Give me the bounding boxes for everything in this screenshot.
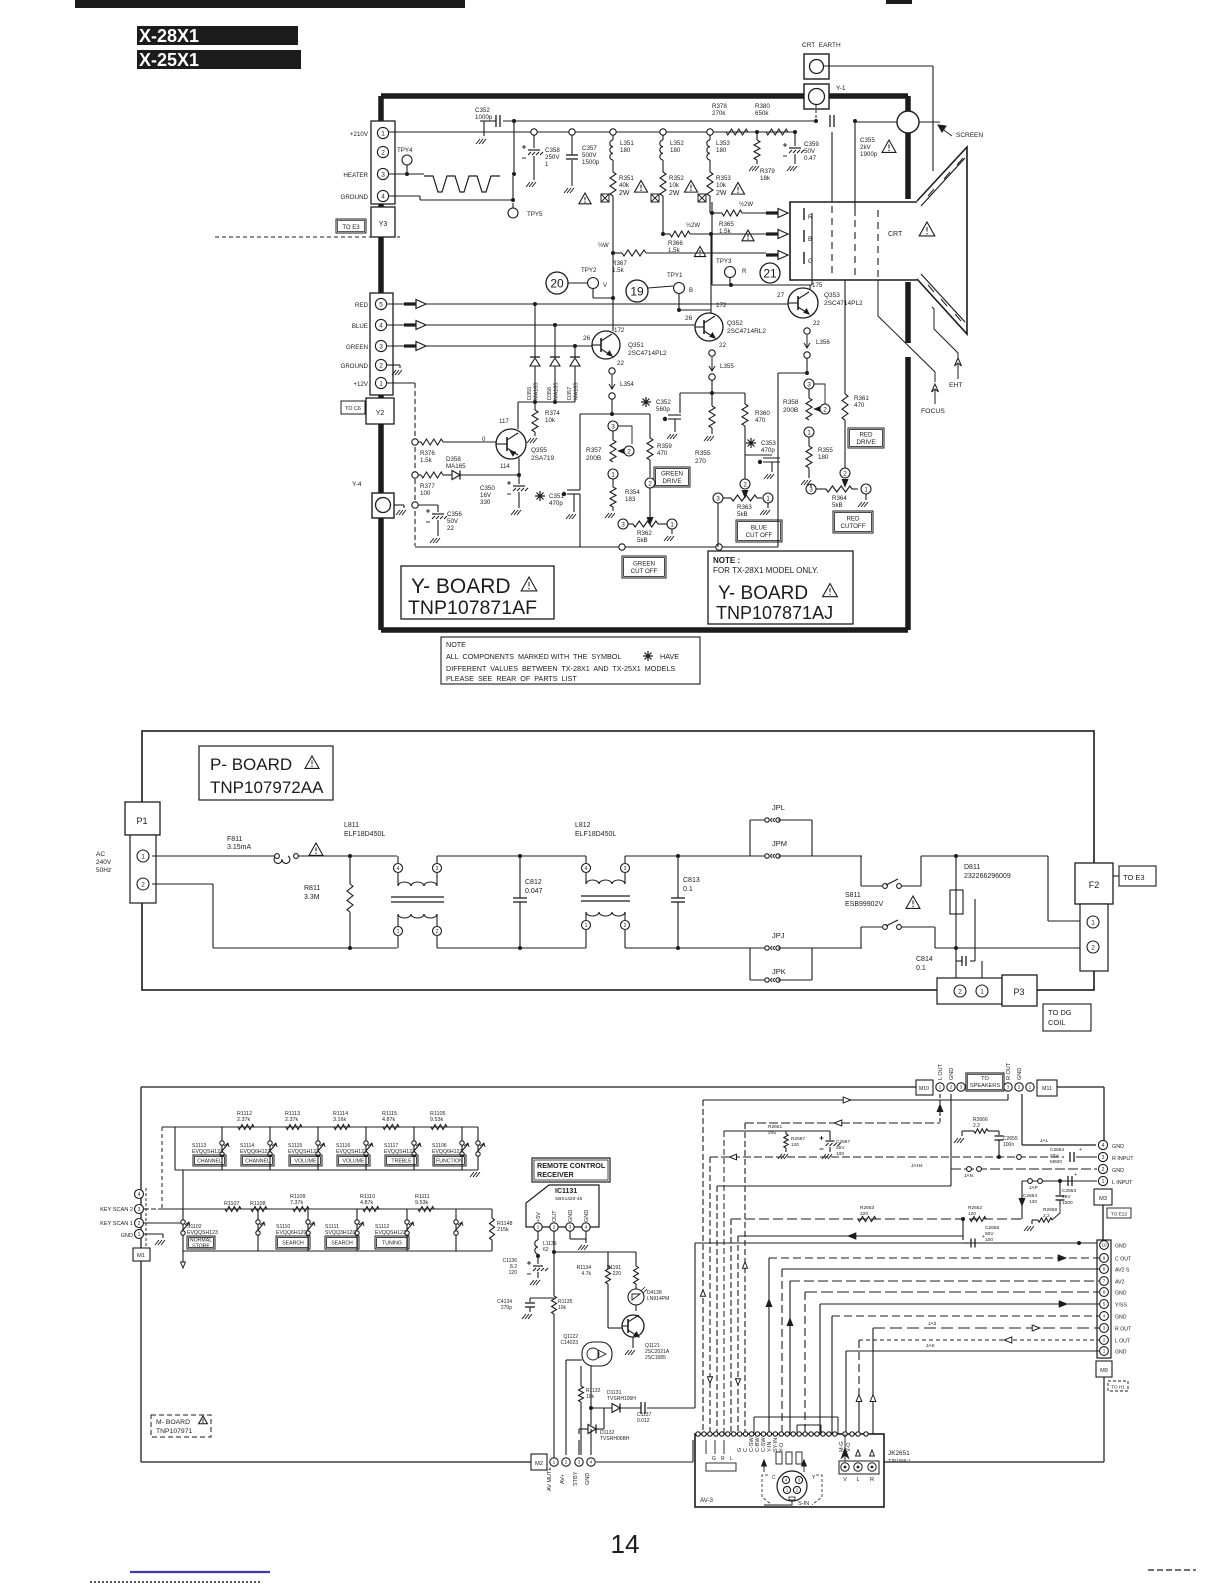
- svg-text:V-O: V-O: [846, 1442, 852, 1452]
- svg-text:R2667: R2667: [791, 1136, 805, 1142]
- svg-text:10: 10: [1101, 1243, 1107, 1248]
- svg-text:5kB: 5kB: [737, 511, 748, 518]
- wire bus pin1: [846, 1350, 1099, 1352]
- connector Y3 label: [371, 207, 395, 237]
- svg-text:TPY2: TPY2: [581, 267, 597, 274]
- svg-text:R358: R358: [783, 399, 799, 406]
- svg-text:L INPUT: L INPUT: [1112, 1180, 1133, 1186]
- svg-text:2SC4714PL2: 2SC4714PL2: [824, 300, 863, 307]
- svg-text:3: 3: [578, 1460, 581, 1466]
- svg-text:C352: C352: [475, 107, 490, 114]
- svg-text:120: 120: [791, 1142, 799, 1148]
- connector M3 pins: [1098, 1140, 1107, 1149]
- svg-text:MA165: MA165: [554, 383, 560, 400]
- connector P3: [937, 978, 1002, 1004]
- svg-text:CHANNEL: CHANNEL: [197, 1158, 222, 1164]
- svg-text:JAN: JAN: [964, 1173, 974, 1179]
- svg-text:100: 100: [836, 1151, 844, 1157]
- svg-text:4.87k: 4.87k: [382, 1117, 395, 1123]
- svg-text:S811: S811: [845, 892, 861, 899]
- REMOTE CONTROL RECEIVER box: [532, 1158, 610, 1182]
- svg-text:EVQQ6H12G: EVQQ6H12G: [276, 1230, 307, 1236]
- svg-text:C358: C358: [545, 147, 560, 154]
- potentiometer R362: [645, 478, 655, 488]
- svg-text:2: 2: [648, 480, 652, 487]
- svg-text:GROUND: GROUND: [341, 194, 369, 201]
- svg-text:R1107: R1107: [224, 1201, 239, 1207]
- svg-text:TO H1: TO H1: [1111, 1385, 1125, 1390]
- svg-text:BLUE: BLUE: [352, 323, 368, 330]
- test point TPY2: [588, 278, 599, 289]
- svg-text:TPY4: TPY4: [397, 147, 413, 154]
- svg-text:L353: L353: [716, 140, 730, 147]
- wire CRT earth: [824, 65, 933, 67]
- svg-text:0.012: 0.012: [637, 1418, 650, 1424]
- svg-text:M9: M9: [1100, 1368, 1108, 1374]
- svg-text:25V: 25V: [1050, 1153, 1059, 1159]
- svg-text:D355: D355: [527, 387, 533, 400]
- wire speaker L down: [939, 1094, 941, 1123]
- svg-text:TNP107972AA: TNP107972AA: [210, 778, 324, 797]
- svg-text:R811: R811: [304, 885, 320, 892]
- svg-text:BLUE: BLUE: [751, 525, 767, 532]
- svg-text:L812: L812: [575, 822, 591, 829]
- wire Q353 collector: [811, 213, 813, 285]
- svg-text:M2: M2: [535, 1461, 543, 1467]
- svg-text:TNP107871AJ: TNP107871AJ: [716, 603, 833, 623]
- wire bus pin7: [790, 1280, 1099, 1282]
- svg-text:1: 1: [611, 471, 615, 478]
- capacitor C2656: [962, 1219, 964, 1236]
- svg-text:TPY1: TPY1: [667, 272, 683, 279]
- svg-text:RED: RED: [355, 302, 369, 309]
- wire keyscan2: [144, 1208, 162, 1210]
- svg-text:1: 1: [807, 429, 811, 436]
- svg-text:330: 330: [480, 499, 491, 506]
- svg-text:ELF18D450L: ELF18D450L: [344, 831, 385, 838]
- svg-text:R374: R374: [545, 410, 560, 417]
- svg-text:205: 205: [768, 1130, 776, 1136]
- svg-text:Y2: Y2: [376, 410, 385, 417]
- svg-text:50Hz: 50Hz: [96, 867, 111, 874]
- capacitor C353: [746, 438, 756, 448]
- resistor R360: [744, 393, 746, 404]
- svg-text:Q352: Q352: [727, 320, 743, 327]
- svg-text:+5V: +5V: [536, 1212, 542, 1222]
- label SCREEN: [941, 128, 952, 136]
- wire Q1122 pins: [565, 1360, 567, 1455]
- svg-text:2SC4714RL2: 2SC4714RL2: [727, 328, 766, 335]
- svg-text:3: 3: [624, 866, 627, 872]
- wire screen rail: [503, 120, 816, 122]
- wire GREEN row: [387, 345, 592, 347]
- svg-text:2: 2: [379, 362, 383, 369]
- test point circle 21: [760, 263, 780, 283]
- wire blue emitter node: [680, 392, 745, 394]
- wire M11 to M3 pin4: [1057, 1086, 1104, 1088]
- svg-text:GND: GND: [1115, 1350, 1127, 1356]
- svg-text:2: 2: [565, 1460, 568, 1466]
- svg-text:FOR TX-28X1 MODEL ONLY.: FOR TX-28X1 MODEL ONLY.: [713, 566, 819, 575]
- svg-text:1: 1: [1103, 1349, 1106, 1354]
- svg-text:R: R: [721, 1456, 725, 1462]
- svg-text:GREEN: GREEN: [661, 471, 683, 478]
- svg-text:R2653: R2653: [860, 1205, 874, 1211]
- svg-text:M11: M11: [1042, 1086, 1052, 1092]
- wire +12V feed: [387, 382, 415, 384]
- svg-text:+: +: [1079, 1147, 1082, 1153]
- svg-text:20: 20: [550, 277, 564, 291]
- svg-text:120: 120: [968, 1211, 976, 1217]
- svg-text:183: 183: [625, 496, 636, 503]
- svg-text:4: 4: [585, 866, 588, 872]
- svg-text:JPL: JPL: [772, 803, 785, 812]
- wire switch row1 top rail: [162, 1126, 478, 1128]
- bottom blue mark: [130, 1571, 270, 1573]
- svg-text:MA165: MA165: [446, 463, 466, 470]
- svg-text:2.2: 2.2: [973, 1123, 980, 1129]
- svg-text:TO C6: TO C6: [345, 406, 361, 412]
- svg-text:M3: M3: [1099, 1196, 1107, 1202]
- potentiometer R357: [608, 421, 618, 431]
- svg-text:GND: GND: [1112, 1168, 1124, 1174]
- wire row2 bottom rail: [183, 1250, 492, 1252]
- svg-text:5: 5: [1103, 1302, 1106, 1307]
- switch row2 456: [455, 1209, 457, 1251]
- svg-text:180: 180: [716, 147, 727, 154]
- transistor Q1121: [635, 1305, 637, 1311]
- svg-text:2SA719: 2SA719: [531, 455, 555, 462]
- transistor Q351: [592, 331, 620, 359]
- CRT pin G: [803, 252, 805, 264]
- svg-text:MA165: MA165: [534, 383, 540, 400]
- wire TPY3 row: [712, 284, 812, 286]
- wire IC pin2 out: [553, 1231, 555, 1296]
- svg-text:172: 172: [614, 327, 625, 334]
- resistor R2653: [858, 1217, 876, 1222]
- svg-text:9: 9: [1103, 1256, 1106, 1261]
- svg-text:S-IN: S-IN: [798, 1501, 809, 1507]
- svg-text:C OUT: C OUT: [1115, 1257, 1132, 1263]
- svg-text:2: 2: [553, 1225, 556, 1231]
- svg-text:R351: R351: [619, 175, 634, 182]
- svg-text:3.16k: 3.16k: [333, 1117, 346, 1123]
- resistor R376: [412, 439, 418, 445]
- svg-text:Y- BOARD: Y- BOARD: [411, 575, 511, 598]
- svg-text:JPK: JPK: [772, 967, 786, 976]
- svg-text:½2W: ½2W: [686, 222, 700, 229]
- svg-text:PLEASE SEE REAR OF PARTS: PLEASE SEE REAR OF PARTS LIST: [446, 674, 577, 683]
- svg-text:3: 3: [379, 343, 383, 350]
- svg-text:C355: C355: [860, 137, 875, 144]
- wire L812 to jumpers: [625, 855, 750, 857]
- svg-text:R357: R357: [586, 447, 602, 454]
- switch row2 308: [307, 1209, 309, 1251]
- svg-text:RECEIVER: RECEIVER: [537, 1170, 575, 1179]
- svg-text:Y- BOARD: Y- BOARD: [718, 583, 808, 604]
- heater filament: [389, 173, 424, 175]
- svg-text:Y3: Y3: [379, 221, 388, 228]
- svg-text:SVQQ3H12G: SVQQ3H12G: [325, 1230, 356, 1236]
- resistor R374: [534, 402, 536, 410]
- svg-text:1500p: 1500p: [582, 159, 600, 166]
- svg-text:C352: C352: [656, 399, 671, 406]
- AV-3 upper loop wires: [754, 1416, 838, 1418]
- svg-text:GND: GND: [585, 1473, 591, 1485]
- wire bus L OUT: [703, 1099, 1008, 1101]
- wire M-board bottom: [141, 1461, 531, 1463]
- svg-text:22: 22: [617, 360, 624, 367]
- switch S1114: [269, 1127, 271, 1170]
- svg-text:1: 1: [397, 929, 400, 935]
- switch row2 407: [406, 1209, 408, 1251]
- switch S1116: [365, 1127, 367, 1170]
- svg-text:+12V: +12V: [353, 381, 368, 388]
- wire G drive row: [611, 251, 615, 255]
- S-IN label: [764, 1501, 792, 1505]
- svg-text:100n: 100n: [1003, 1142, 1014, 1148]
- svg-text:SBX1420-45: SBX1420-45: [555, 1196, 583, 1202]
- connector M9: [1096, 1361, 1112, 1377]
- page top black bar: [75, 0, 465, 8]
- CRT socket box: [790, 202, 917, 280]
- svg-text:4: 4: [590, 1460, 593, 1466]
- svg-text:L351: L351: [620, 140, 634, 147]
- wire bus pin5: [820, 1303, 1099, 1305]
- svg-text:470: 470: [657, 450, 668, 457]
- switch S811 upper: [812, 855, 861, 857]
- svg-text:1000p: 1000p: [475, 114, 493, 121]
- svg-text:L354: L354: [620, 381, 634, 388]
- svg-text:KEY SCAN 1: KEY SCAN 1: [100, 1221, 133, 1227]
- resistor R2651 wire: [724, 1130, 830, 1132]
- svg-text:GND: GND: [1112, 1144, 1124, 1150]
- svg-text:ELF18D450L: ELF18D450L: [575, 831, 616, 838]
- svg-text:AV2: AV2: [1115, 1280, 1125, 1286]
- svg-text:1: 1: [864, 486, 868, 493]
- svg-text:1: 1: [1102, 1179, 1105, 1185]
- M1 strip dash: [145, 1188, 147, 1247]
- svg-text:L355: L355: [720, 363, 734, 370]
- resistor R353: [709, 160, 711, 172]
- svg-text:2W: 2W: [716, 190, 727, 197]
- svg-text:1: 1: [670, 521, 674, 528]
- svg-text:JAL: JAL: [1040, 1138, 1049, 1144]
- svg-text:NOTE: NOTE: [446, 640, 466, 649]
- svg-text:EVQQSH127: EVQQSH127: [288, 1149, 319, 1155]
- svg-text:1: 1: [1091, 919, 1095, 926]
- wire fuse to L811: [298, 855, 397, 857]
- svg-text:3: 3: [138, 1207, 141, 1213]
- svg-text:3: 3: [611, 423, 615, 430]
- svg-text:ESB99902V: ESB99902V: [845, 901, 883, 908]
- svg-text:C359: C359: [804, 141, 819, 148]
- svg-text:C2667: C2667: [836, 1139, 850, 1145]
- svg-text:4: 4: [381, 193, 385, 200]
- svg-text:22: 22: [813, 320, 820, 327]
- diode D355: [534, 304, 536, 357]
- connector M10: [916, 1080, 933, 1095]
- svg-text:8: 8: [1103, 1267, 1106, 1272]
- S-video connector: [777, 1471, 807, 1501]
- svg-text:CUTOFF: CUTOFF: [841, 523, 866, 530]
- svg-text:SEARCH: SEARCH: [282, 1240, 304, 1246]
- svg-text:RED: RED: [846, 516, 860, 523]
- svg-text:JAH4: JAH4: [911, 1163, 923, 1169]
- svg-text:TREBLE: TREBLE: [391, 1158, 412, 1164]
- svg-text:R2652: R2652: [968, 1205, 982, 1211]
- svg-text:GREEN: GREEN: [633, 561, 655, 568]
- resistor R1148: [491, 1209, 493, 1218]
- svg-text:JAK: JAK: [926, 1343, 936, 1349]
- svg-text:R363: R363: [737, 504, 752, 511]
- resistor R1135: [552, 1296, 557, 1314]
- wire bus pin2: [859, 1339, 1099, 1341]
- svg-text:M600: M600: [1050, 1159, 1062, 1165]
- svg-text:L811: L811: [344, 822, 359, 829]
- svg-text:C353: C353: [761, 440, 776, 447]
- svg-text:P- BOARD: P- BOARD: [210, 755, 292, 774]
- test point TPY4: [402, 155, 412, 165]
- svg-text:DRIVE: DRIVE: [663, 478, 682, 485]
- resistor R1132: [580, 1366, 582, 1386]
- svg-text:22: 22: [719, 342, 726, 349]
- svg-text:1: 1: [537, 1225, 540, 1231]
- svg-text:470p: 470p: [761, 447, 775, 454]
- svg-text:4: 4: [397, 866, 400, 872]
- wire P1 pin2 down: [152, 883, 213, 885]
- inductor L353: [709, 135, 711, 140]
- svg-text:10k: 10k: [545, 417, 556, 424]
- wire bus pin6: [805, 1291, 1099, 1293]
- svg-text:1: 1: [553, 1460, 556, 1466]
- capacitor C358: [533, 135, 535, 148]
- resistor R361: [844, 280, 846, 394]
- resistor R1191: [635, 1252, 637, 1266]
- capacitor C352s: [641, 397, 651, 407]
- wire Q351 collector: [612, 253, 614, 331]
- svg-text:50V: 50V: [447, 518, 459, 525]
- svg-text:D358: D358: [446, 456, 461, 463]
- svg-text:R OUT: R OUT: [1115, 1327, 1132, 1333]
- svg-text:D357: D357: [567, 387, 573, 400]
- svg-text:470p: 470p: [549, 500, 563, 507]
- svg-text:270p: 270p: [501, 1305, 512, 1311]
- svg-text:GND: GND: [1115, 1291, 1127, 1297]
- connector P1: [125, 802, 160, 835]
- svg-text:X-28X1: X-28X1: [139, 26, 199, 46]
- wire row1 bottom rail: [175, 1169, 478, 1171]
- svg-text:R: R: [870, 1477, 874, 1483]
- svg-text:10k: 10k: [669, 182, 680, 189]
- svg-text:+210V: +210V: [350, 131, 369, 138]
- wire bus to speaker L: [745, 1122, 940, 1124]
- svg-text:114: 114: [500, 463, 510, 470]
- svg-text:172: 172: [716, 302, 727, 309]
- wire L INPUT: [1022, 1180, 1097, 1182]
- M-BOARD title box: [151, 1415, 211, 1437]
- switch S811 lower: [861, 947, 862, 949]
- svg-text:R1108: R1108: [250, 1201, 265, 1207]
- svg-text:TPY5: TPY5: [527, 211, 543, 218]
- connector M8 strip: [1097, 1240, 1111, 1358]
- svg-text:CRT: CRT: [888, 231, 903, 238]
- connector Y2 pin strip: [370, 293, 393, 395]
- svg-text:EVQQSH127: EVQQSH127: [384, 1149, 415, 1155]
- svg-text:C813: C813: [683, 877, 700, 884]
- svg-text:18k: 18k: [760, 175, 771, 182]
- svg-text:470: 470: [854, 402, 865, 409]
- ground Y2 pin2: [387, 364, 400, 366]
- GREEN DRIVE box: [654, 467, 690, 487]
- wire M2 to AV3: [596, 1461, 693, 1463]
- svg-text:R359: R359: [657, 443, 672, 450]
- AV-3 V L R jacks: [839, 1461, 879, 1474]
- svg-text:RED: RED: [859, 432, 873, 439]
- svg-text:180: 180: [620, 147, 631, 154]
- svg-text:650k: 650k: [755, 110, 769, 117]
- TO E3 right box: [1119, 866, 1156, 886]
- svg-text:270k: 270k: [712, 110, 726, 117]
- svg-text:3: 3: [716, 495, 720, 502]
- svg-text:TNP107871AF: TNP107871AF: [408, 597, 537, 619]
- switch row2 357: [356, 1209, 358, 1251]
- svg-text:X-25X1: X-25X1: [139, 50, 199, 70]
- svg-text:2W: 2W: [669, 190, 680, 197]
- svg-text:Q355: Q355: [531, 447, 547, 454]
- svg-text:100: 100: [985, 1237, 993, 1243]
- resistor R355b: [808, 437, 810, 446]
- svg-text:JK2651: JK2651: [888, 1450, 910, 1457]
- svg-text:1.5k: 1.5k: [420, 457, 433, 464]
- diode D357: [574, 346, 576, 357]
- inductor L352: [662, 135, 664, 140]
- svg-text:120: 120: [509, 1270, 518, 1276]
- svg-text:27: 27: [777, 292, 785, 299]
- resistor R1134: [607, 1252, 609, 1266]
- svg-text:3: 3: [1102, 1155, 1105, 1161]
- wire M9 down: [1103, 1377, 1105, 1462]
- svg-text:2: 2: [138, 1221, 141, 1227]
- svg-text:P1: P1: [136, 816, 147, 826]
- svg-text:1: 1: [1029, 1085, 1032, 1091]
- svg-text:GND: GND: [1017, 1068, 1023, 1080]
- CRT funnel: [917, 147, 967, 334]
- svg-text:R361: R361: [854, 395, 869, 402]
- svg-text:C2653: C2653: [1062, 1188, 1076, 1194]
- wire JAP down: [1021, 1181, 1023, 1219]
- svg-text:COIL: COIL: [1048, 1018, 1066, 1027]
- wire bus av: [731, 1218, 1022, 1220]
- P-BOARD title box: [199, 746, 333, 800]
- svg-text:3: 3: [569, 1225, 572, 1231]
- svg-text:4: 4: [1103, 1314, 1106, 1319]
- svg-text:L OUT: L OUT: [1115, 1339, 1131, 1345]
- svg-text:R376: R376: [420, 450, 435, 457]
- svg-text:TVSRH06BH: TVSRH06BH: [600, 1436, 630, 1442]
- dashed rule: [215, 236, 400, 238]
- svg-text:2kV: 2kV: [860, 144, 872, 151]
- svg-text:KEY SCAN 2: KEY SCAN 2: [100, 1207, 133, 1213]
- svg-text:EHT: EHT: [949, 382, 963, 389]
- EHT lead: [932, 307, 958, 360]
- svg-text:0.1: 0.1: [683, 886, 693, 893]
- svg-text:VOLUME: VOLUME: [343, 1158, 365, 1164]
- svg-text:2: 2: [823, 406, 827, 413]
- AV-3 inner components: [776, 1452, 782, 1464]
- speaker pins right: [1004, 1083, 1012, 1091]
- svg-text:C357: C357: [582, 145, 597, 152]
